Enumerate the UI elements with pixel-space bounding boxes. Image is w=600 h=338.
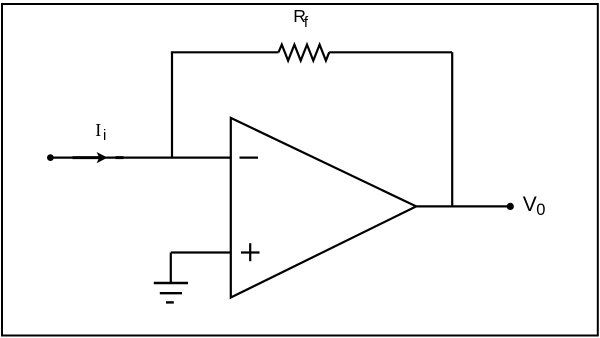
wire output [416, 205, 510, 207]
op-amp U1 [231, 118, 416, 298]
op-amp inverting input minus sign [240, 157, 259, 159]
wire feedback top left segment [171, 51, 279, 53]
node input terminal dot [47, 154, 54, 161]
svg-text:i: i [103, 127, 106, 144]
wire ground vertical [170, 253, 172, 284]
op-amp non-inverting input plus sign [241, 251, 260, 253]
wire feedback right vertical [451, 52, 453, 206]
resistor Rf [279, 45, 330, 61]
ground [154, 282, 188, 284]
current arrow Ii [73, 156, 101, 159]
svg-text:I: I [95, 120, 101, 140]
svg-text:0: 0 [536, 201, 545, 219]
wire non-inverting input [171, 251, 231, 253]
wire feedback left vertical [171, 52, 173, 157]
svg-text:V: V [523, 193, 537, 216]
wire feedback top right segment [329, 51, 452, 53]
wire input from terminal to inverting input [50, 157, 230, 159]
node output terminal dot [507, 203, 514, 210]
